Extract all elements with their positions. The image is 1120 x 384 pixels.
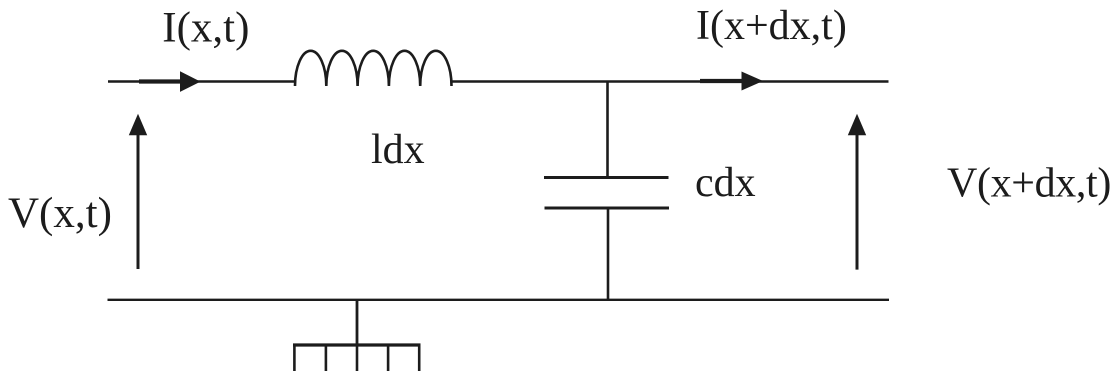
svg-text:I(x,t): I(x,t) xyxy=(162,5,249,52)
svg-text:ldx: ldx xyxy=(371,127,425,173)
arrow V(x+dx,t) head xyxy=(848,114,866,135)
arrow I(x,t) shaft xyxy=(139,79,183,83)
svg-text:V(x+dx,t): V(x+dx,t) xyxy=(947,161,1111,207)
arrow V(x,t) line xyxy=(137,133,140,269)
wire bottom rail xyxy=(108,299,890,301)
ground tick 4 xyxy=(387,345,390,371)
svg-text:cdx: cdx xyxy=(695,160,756,206)
svg-text:I(x+dx,t): I(x+dx,t) xyxy=(696,3,847,49)
wire top-middle segment xyxy=(451,80,889,82)
capacitor cdx top plate xyxy=(544,176,669,179)
ground tick 1 xyxy=(293,345,296,371)
arrow I(x+dx,t) shaft xyxy=(700,79,744,83)
wire capacitor branch lower xyxy=(607,208,610,300)
inductor ldx coil xyxy=(295,51,452,86)
ground tick 5 xyxy=(418,345,421,371)
wire top-left segment xyxy=(108,80,296,82)
capacitor cdx bottom plate xyxy=(545,207,670,210)
ground tick 3 xyxy=(356,345,359,371)
arrow I(x,t) head xyxy=(180,71,201,92)
svg-text:V(x,t): V(x,t) xyxy=(8,190,112,237)
ground bar xyxy=(293,343,421,346)
arrow I(x+dx,t) head xyxy=(742,72,764,91)
wire capacitor branch upper xyxy=(606,82,609,178)
ground tick 2 xyxy=(325,345,328,371)
arrow V(x+dx,t) line xyxy=(856,133,859,270)
arrow V(x,t) head xyxy=(129,114,147,135)
ground stem xyxy=(356,300,359,345)
